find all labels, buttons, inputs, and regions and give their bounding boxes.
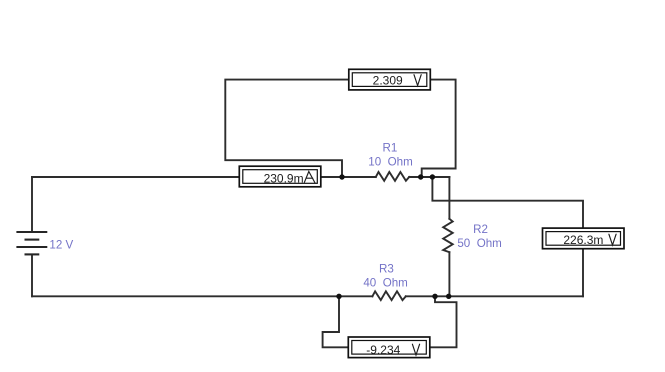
- svg-text:12 V: 12 V: [49, 238, 73, 251]
- svg-text:230.9m: 230.9m: [264, 172, 304, 186]
- svg-text:50 Ohm: 50 Ohm: [457, 237, 501, 250]
- svg-text:10 Ohm: 10 Ohm: [368, 155, 412, 168]
- svg-text:R3: R3: [379, 262, 394, 275]
- svg-text:R1: R1: [382, 141, 397, 154]
- svg-text:-9.234: -9.234: [366, 343, 400, 357]
- svg-text:R2: R2: [473, 223, 488, 236]
- svg-text:2.309: 2.309: [373, 73, 403, 87]
- svg-text:40 Ohm: 40 Ohm: [363, 276, 407, 289]
- svg-text:226.3m: 226.3m: [563, 233, 603, 247]
